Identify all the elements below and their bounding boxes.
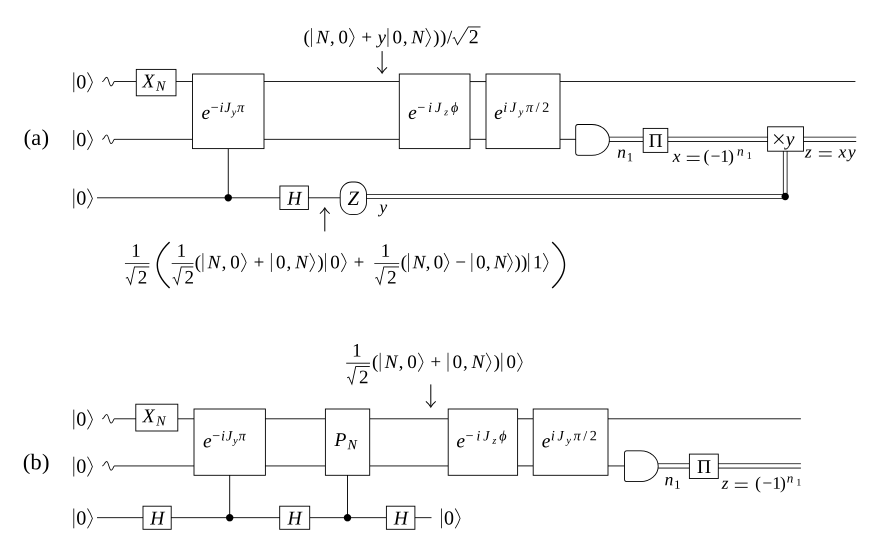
wire mode1 U2 to U3 (b) xyxy=(518,418,534,420)
label n_1 (b) xyxy=(665,477,679,489)
gate U3 label e^iJy.pi/2 xyxy=(495,102,549,119)
vertical classical double wire from Xy down (a) xyxy=(783,151,787,194)
gate U1 label e^-iJy.pi xyxy=(202,103,244,119)
gate H1 label xyxy=(287,192,302,205)
control vertical P_N to qubit (b) xyxy=(347,475,349,517)
annotation formula 1/sqrt2(|N,0>+|0,N>)|0> (b) xyxy=(346,344,522,384)
ket |0> qubit output (b) xyxy=(442,509,461,529)
gate U1 e^-iJy.pi box (a) xyxy=(193,74,265,149)
wire mode1 U3 to end xyxy=(560,81,855,83)
wire H1 to Z measure (a) xyxy=(308,197,340,199)
classical double wire detector to Pi box (a) xyxy=(609,137,643,141)
gate U3 e^iJy.pi/2 box (a) xyxy=(486,74,560,149)
wire mode1 to X_N xyxy=(115,81,137,83)
wire H1 to H2 (b) xyxy=(171,517,280,519)
gate H3 label (b) xyxy=(394,512,409,525)
gate U2 label e^-iJz.phi xyxy=(409,102,458,119)
label n_1 (a) xyxy=(618,150,632,162)
gate H2 box (b) xyxy=(280,506,310,529)
classical double wire Z to junction (a) xyxy=(367,195,788,199)
wire H2 to H3 (b) xyxy=(310,517,387,519)
control vertical U1 to qubit (b) xyxy=(229,475,231,517)
gate X_N box (b) xyxy=(136,404,178,431)
wire mode2 U3 to detector (b) xyxy=(608,465,625,467)
label z=xy (a) xyxy=(805,149,856,161)
wire mode1 P_N to U2 (b) xyxy=(370,418,449,420)
classical double wire detector to Pi (b) xyxy=(658,464,689,468)
gate U3 label (b) xyxy=(542,431,596,448)
gate U2 label (b) xyxy=(457,431,506,448)
annotation arrow down (b) xyxy=(426,384,436,407)
annotation formula (|N,0>+y|0,N>)/sqrt2 xyxy=(304,27,480,48)
gate H2 label (b) xyxy=(287,512,302,525)
bosonic mode wiggle wire 2 xyxy=(102,135,114,144)
wire mode1 U3 to end (b) xyxy=(608,418,801,420)
wire X_N to U1 (b) xyxy=(178,418,194,420)
gate X_N label (b) xyxy=(142,410,166,426)
parity box label (b) xyxy=(698,460,711,473)
label z=(-1)^n1 (b) xyxy=(722,476,801,492)
label (a) xyxy=(25,129,49,149)
wire mode2 P_N to U2 (b) xyxy=(370,465,449,467)
wire mode2 to U1 (b) xyxy=(115,465,195,467)
label x=(-1)^n1 (a) xyxy=(672,149,751,165)
classical double wire Pi to Xy (a) xyxy=(668,137,768,141)
gate U2 e^-iJz.phi box (a) xyxy=(399,74,470,149)
ket |0> qubit input (b) xyxy=(74,509,93,529)
wire qubit to H1 (b) xyxy=(97,517,143,519)
wire H3 to output ket (b) xyxy=(415,517,432,519)
annotation formula 1/sqrt2(...)|0>+...|1>) below circuit (a) xyxy=(125,242,565,288)
ket |0> mode 1 input (b) xyxy=(74,410,93,430)
gate U2 e^-iJz.phi box (b) xyxy=(448,409,517,475)
wire mode2 to U1 xyxy=(115,138,193,140)
gate Xy multiply box (a) xyxy=(768,127,804,151)
bosonic mode wiggle wire 1 (b) xyxy=(102,415,114,424)
gate H3 box (b) xyxy=(386,506,415,529)
gate U1 e^-iJy.pi box (b) xyxy=(194,409,265,475)
junction dot classical wires (a) xyxy=(782,193,789,200)
annotation state arrow (a) top xyxy=(377,51,387,73)
gate H1 box (b) xyxy=(143,506,171,529)
control dot 2 (b) xyxy=(344,514,351,521)
bosonic mode wiggle wire 1 xyxy=(102,77,114,86)
parity box Pi (a) xyxy=(643,128,668,152)
gate U1 label (b) xyxy=(204,431,246,447)
detector D1 photon counter (b) xyxy=(625,451,659,482)
up arrow to formula (a) xyxy=(320,208,330,232)
measure Z label xyxy=(348,192,359,205)
wire mode2 U1 to P_N (b) xyxy=(265,465,325,467)
ket |0> qubit input (a) xyxy=(74,189,93,209)
wire mode1 U1 to P_N (b) xyxy=(265,418,325,420)
gate H1 box (a) xyxy=(280,186,309,210)
gate Xy label xyxy=(774,135,794,150)
label (b) xyxy=(24,454,49,474)
parity box label (a) xyxy=(649,134,662,147)
ket |0> mode 2 input xyxy=(74,130,93,150)
control vertical line U1 to qubit (a) xyxy=(227,149,229,198)
ket |0> mode 2 input (b) xyxy=(74,457,93,477)
label y below classical wire (a) xyxy=(378,205,387,217)
bosonic mode wiggle wire 2 (b) xyxy=(102,462,114,471)
classical double wire Xy to end (a) xyxy=(804,137,857,141)
gate P_N box (b) xyxy=(325,409,369,475)
wire mode1 to X_N (b) xyxy=(115,418,136,420)
gate U3 e^iJy.pi/2 box (b) xyxy=(533,409,608,475)
gate H1 label (b) xyxy=(150,512,165,525)
measure Z oval (a) xyxy=(340,182,366,215)
wire X_N to U1 xyxy=(176,81,193,83)
wire mode2 U2 to U3 xyxy=(470,138,486,140)
wire mode2 U1 to U2 xyxy=(264,138,399,140)
classical double wire Pi to end (b) xyxy=(718,464,801,468)
control dot 1 (b) xyxy=(226,514,233,521)
parity box Pi (b) xyxy=(689,454,718,478)
wire mode2 U3 to detector xyxy=(560,138,576,140)
wire mode2 U2 to U3 (b) xyxy=(518,465,534,467)
wire mode1 U2 to U3 xyxy=(470,81,486,83)
gate X_N box xyxy=(136,69,176,95)
wire mode1 U1 to U2 xyxy=(264,81,399,83)
gate X_N label xyxy=(142,75,166,91)
ket |0> mode 1 input xyxy=(74,72,93,92)
gate P_N label xyxy=(334,433,357,449)
wire qubit to H1 (a) xyxy=(97,197,280,199)
detector D1 photon counter (a) xyxy=(576,125,610,156)
control dot on qubit wire (a) xyxy=(225,194,232,201)
